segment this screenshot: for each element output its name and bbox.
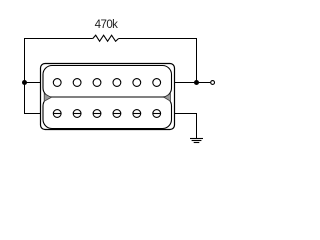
pole piece slug 1 <box>53 79 61 87</box>
pole piece screw 4 <box>113 110 121 118</box>
pole piece slug 2 <box>73 79 81 87</box>
wire pickup north coil to right node <box>175 82 197 84</box>
spacer wedge left (grey) <box>44 94 51 102</box>
pickup north bobbin <box>43 66 172 98</box>
pole piece screw 1 <box>53 110 61 118</box>
wire pickup south coil to ground <box>175 114 197 139</box>
wire node to output terminal <box>197 82 211 84</box>
ground <box>190 139 203 143</box>
pole piece slug 3 <box>93 79 101 87</box>
wire top-left segment (left rail to resistor) <box>24 38 93 40</box>
wire left stub to pickup north coil <box>25 82 41 84</box>
wire top-right segment (resistor to right rail) <box>119 38 197 40</box>
pole piece screw 6 <box>153 110 161 118</box>
wire left vertical rail <box>24 38 26 114</box>
wire right vertical rail (resistor to node) <box>196 38 198 83</box>
junction dot right node <box>194 80 199 85</box>
pole piece slug 4 <box>113 79 121 87</box>
pole piece screw 3 <box>93 110 101 118</box>
output terminal (open circle) <box>211 81 215 85</box>
spacer wedge right (grey) <box>164 94 170 102</box>
svg-text:470k: 470k <box>95 19 119 31</box>
pole piece screw 2 <box>73 110 81 118</box>
pickup P1 humbucker <box>41 64 175 130</box>
pole piece slug 6 <box>153 79 161 87</box>
wire left stub to pickup south coil <box>24 113 41 115</box>
pole piece screw 5 <box>133 110 141 118</box>
pickup south bobbin <box>43 97 172 129</box>
pole piece slug 5 <box>133 79 141 87</box>
pickup outer baseplate <box>41 64 175 130</box>
junction dot left node <box>22 80 27 85</box>
resistor R1 <box>93 35 119 41</box>
